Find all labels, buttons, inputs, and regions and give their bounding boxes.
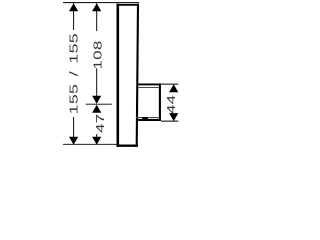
box top edge: [137, 83, 161, 85]
extension line bottom (plate bottom): [63, 143, 118, 145]
dimension line 155/155 (left): [73, 3, 75, 144]
dimension line 47 (lower): [96, 134, 98, 144]
box inner step line bottom: [136, 117, 159, 119]
svg-text:44: 44: [166, 94, 178, 114]
box inner step line top: [138, 87, 158, 89]
extension line box top: [161, 83, 178, 85]
extension line box bottom: [161, 120, 178, 122]
plate left edge: [117, 4, 120, 147]
arrow up 44 top: [169, 84, 178, 92]
arrow up 108 top: [92, 3, 101, 11]
svg-text:47: 47: [95, 113, 107, 132]
extension line top (plate top): [63, 2, 139, 4]
arrow down 44 bottom: [169, 113, 178, 121]
arrow down 47 bottom: [92, 137, 101, 145]
box bottom edge: [137, 119, 161, 121]
arrow up 155 top: [69, 3, 78, 11]
button detail on box underside: [142, 117, 148, 120]
valve sleeve box protruding from plate: [136, 83, 161, 121]
plate bottom edge: [117, 144, 138, 146]
wall plate outline (side view rectangle): [117, 4, 139, 147]
svg-text:155 / 155: 155 / 155: [69, 33, 81, 114]
plate right edge: [137, 4, 138, 147]
arrow up 47 at centerline: [92, 105, 101, 113]
plate top edge: [117, 4, 139, 6]
arrow down 155 bottom: [69, 137, 78, 145]
svg-text:108: 108: [92, 40, 104, 69]
box right edge: [159, 83, 161, 121]
dimension line 108 (second): [96, 3, 98, 96]
valve centerline extension: [86, 103, 112, 105]
arrow down 108 at centerline: [92, 96, 101, 104]
